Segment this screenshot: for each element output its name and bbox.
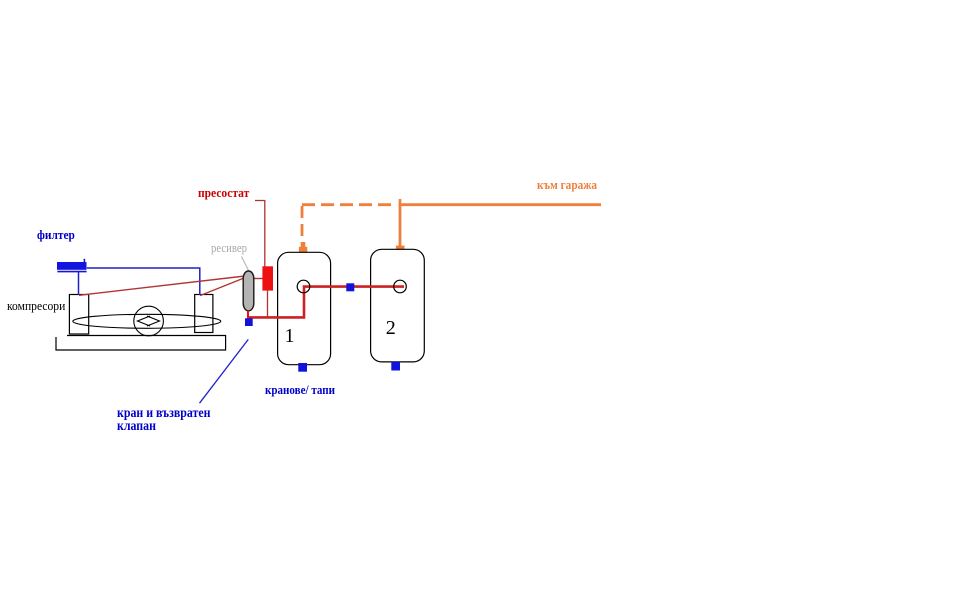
- wire: bright red stub receiver to valve: [247, 311, 249, 320]
- pressostat body (red): [262, 266, 273, 290]
- valve: blue square under receiver: [245, 318, 253, 326]
- valve: blue square at tank 2 bottom: [391, 362, 400, 371]
- label: филтер: [37, 228, 75, 241]
- valve: blue square between tanks: [346, 283, 354, 291]
- label: пресостат: [198, 186, 249, 199]
- compressor: fan chevrons inside motor: [138, 316, 160, 326]
- valve: blue square at tank 1 bottom: [298, 363, 307, 372]
- wire: orange dashed vertical down to tank 1 top: [301, 206, 304, 243]
- port circle on tank 2: [394, 280, 407, 293]
- wire: thin red pipe right cylinder to receiver: [200, 278, 244, 296]
- leader line: pressostat pointer (red): [255, 201, 265, 267]
- compressor: right cylinder: [195, 295, 213, 333]
- wire: thin red pipe left cylinder to receiver: [79, 276, 245, 295]
- wire: orange dashed horizontal from tank 1 to junction: [302, 203, 397, 206]
- compressor: long tank ellipse: [73, 314, 221, 328]
- wire: thin red pipe receiver to pressostat: [253, 278, 263, 280]
- port circle on tank 1: [297, 280, 310, 293]
- label: кранове/ тапи: [265, 383, 335, 396]
- label: ресивер: [211, 242, 247, 255]
- wire: thick red pipe from receiver valve up through tank 1 port to tank 2 port: [248, 287, 405, 318]
- wire: thin red pipe pressostat down to main pipe: [267, 291, 269, 317]
- filter body (blue): [57, 259, 87, 272]
- label: tank number 1: [285, 326, 295, 346]
- junction: orange stub above junction: [399, 199, 402, 206]
- label: към гаража: [537, 178, 597, 191]
- label: кран и възвратен клапан: [117, 407, 221, 432]
- label: tank number 2: [386, 318, 396, 338]
- tank 1 outline: [278, 252, 331, 364]
- wire: orange solid vertical down to tank 2 top: [399, 205, 402, 247]
- wire: orange solid horizontal to garage: [399, 203, 601, 206]
- compressor: motor circle: [134, 306, 164, 336]
- compressor: base plate: [56, 336, 226, 351]
- receiver vessel (gray capsule): [243, 271, 254, 311]
- compressor: left cylinder: [69, 295, 88, 335]
- tank 2 outline: [371, 249, 425, 362]
- leader line: blue pointer to check valve: [200, 339, 249, 403]
- wire: blue pipe filter down to left cylinder: [78, 271, 80, 295]
- wire: blue pipe filter to right cylinder: [87, 268, 200, 295]
- connector: orange fitting on tank 1: [299, 242, 307, 255]
- connector: orange fitting on tank 2: [396, 246, 405, 254]
- label: компресори: [7, 300, 65, 313]
- leader line: receiver pointer (gray): [242, 257, 249, 271]
